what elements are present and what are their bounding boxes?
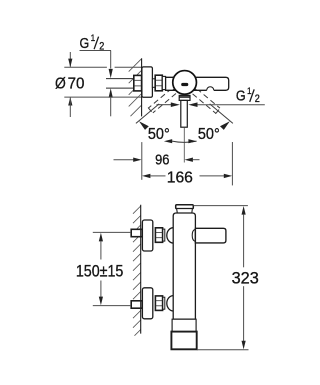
wall hatching (front/side view) — [133, 206, 141, 336]
in-wall hex fitting — [134, 75, 142, 91]
dimension line G1/2 pipe (vertical drop) — [110, 51, 112, 69]
dimension 323 — [194, 205, 248, 207]
svg-text:G: G — [80, 35, 90, 51]
knob marker dash — [181, 83, 188, 86]
thermostat knob (circle) — [173, 71, 197, 95]
wall line (bottom view) — [140, 205, 142, 334]
svg-text:G: G — [236, 88, 246, 104]
collar washer — [162, 76, 165, 89]
left rotated outlet (dashed, 50°) — [148, 88, 176, 114]
escutcheon bottom (bottom view) — [142, 288, 152, 319]
dimension 166 — [142, 174, 150, 178]
outlet centerline — [183, 128, 185, 163]
outlet pipe (vertical) — [181, 100, 188, 127]
dimension 96 — [114, 159, 134, 161]
leader underline for top G 1/2 — [80, 50, 112, 52]
right rotated outlet (dashed, 50°) — [192, 88, 220, 114]
supply stub bottom (behind wall) — [131, 301, 142, 308]
dimension 150±15 — [93, 231, 131, 233]
extension line escutcheon top — [64, 66, 107, 68]
union nut top (bottom view) — [155, 228, 162, 243]
angle extension line left — [136, 104, 159, 124]
label G 1/2 (outlet thread, right) with leader — [198, 104, 265, 106]
supply pipe in wall — [106, 79, 134, 89]
angle extension line right — [210, 104, 233, 124]
escutcheon (top view) — [142, 67, 153, 97]
supply stub top (behind wall) — [131, 229, 142, 236]
angle arrow at pipe right — [188, 102, 197, 107]
svg-text:70: 70 — [68, 75, 85, 92]
svg-text:166: 166 — [167, 169, 193, 186]
svg-text:96: 96 — [155, 152, 170, 168]
body fillets at knob — [172, 77, 197, 90]
lower body section — [172, 319, 196, 331]
angle outer arrow left — [139, 121, 149, 130]
svg-text:1: 1 — [247, 85, 252, 96]
bottom outlet cylinder — [171, 332, 196, 350]
dimension line Ø70 (vertical) — [69, 52, 71, 67]
union nut (top view) — [155, 75, 162, 91]
wall line (top view) — [141, 58, 143, 116]
swivel arc arrows below outlet — [172, 141, 197, 142]
faucet column (bottom view) — [173, 213, 195, 319]
outlet connector (ribbed) — [179, 95, 190, 100]
wall hatching (top view) — [129, 59, 142, 116]
washer bottom — [163, 297, 165, 309]
inlet boss bottom (half-round on column) — [167, 296, 174, 311]
arm boss arc on column — [192, 229, 195, 241]
svg-text:1: 1 — [91, 33, 96, 44]
svg-text:50°: 50° — [198, 126, 220, 144]
top cap plate — [176, 205, 194, 209]
svg-text:Ø: Ø — [55, 76, 66, 93]
extension line escutcheon bottom — [64, 96, 141, 98]
svg-text:323: 323 — [232, 269, 259, 287]
spout arm (bottom view) — [195, 228, 226, 243]
inlet boss top (half-round on column) — [167, 228, 174, 243]
angle arrow at pipe left — [157, 104, 172, 106]
union nut bottom (bottom view) — [155, 296, 162, 311]
spout notch in body bottom edge — [207, 89, 214, 92]
extension line right body end (for 166) — [231, 142, 233, 185]
escutcheon top (bottom view) — [142, 220, 152, 251]
label G 1/2 (top supply thread) — [80, 33, 105, 53]
angle outer arrow right — [220, 121, 230, 130]
top cap neck — [177, 209, 193, 213]
neck between escutcheon and nut — [152, 79, 155, 88]
extension line wall (for 96/166) — [141, 142, 143, 180]
svg-text:2: 2 — [255, 93, 260, 105]
faucet body (top view) — [166, 77, 229, 90]
washer top — [163, 229, 165, 241]
svg-text:50°: 50° — [148, 126, 170, 144]
svg-text:150±15: 150±15 — [76, 263, 124, 281]
